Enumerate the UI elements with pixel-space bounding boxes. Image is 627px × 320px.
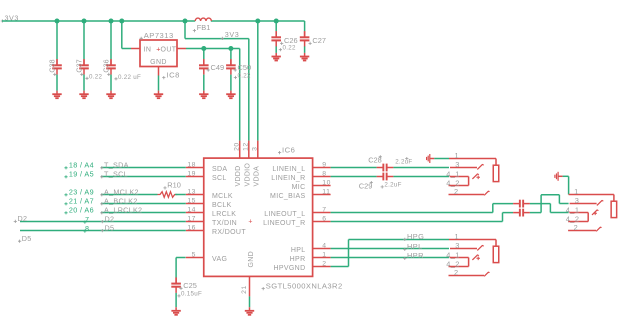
svg-text:T_SDA: T_SDA xyxy=(104,160,129,169)
svg-text:8: 8 xyxy=(85,224,89,233)
J3 headphone jack pin 2 contact xyxy=(484,272,489,276)
svg-text:VDDD: VDDD xyxy=(235,165,242,186)
capacitor C27 xyxy=(300,37,310,40)
svg-text:18: 18 xyxy=(187,161,196,168)
svg-text:D5: D5 xyxy=(105,223,115,232)
wire VDDIO down xyxy=(248,39,250,141)
svg-text:+: + xyxy=(248,218,252,225)
pin 17 stub (TX/DIN) xyxy=(186,221,204,223)
wire IC6 GND xyxy=(249,296,251,307)
svg-text:4_1: 4_1 xyxy=(446,169,460,178)
wire VDDD xyxy=(186,48,240,50)
svg-text:1: 1 xyxy=(455,151,460,160)
svg-text:HPL: HPL xyxy=(407,242,423,251)
svg-text:OUT: OUT xyxy=(161,46,177,53)
junction VDDA xyxy=(255,19,260,24)
wire LINEOUT_L xyxy=(331,212,493,214)
pin IN stub xyxy=(131,48,140,50)
capacitor C26 xyxy=(271,37,281,40)
wire IC8 GND xyxy=(158,76,160,91)
svg-text:19: 19 xyxy=(187,170,196,177)
svg-text:2: 2 xyxy=(454,187,459,196)
wire down to 4_1 xyxy=(549,204,551,213)
svg-text:SCL: SCL xyxy=(212,175,227,182)
svg-text:LINEIN_L: LINEIN_L xyxy=(272,166,305,173)
pin 2 stub (HPVGND) xyxy=(313,266,331,268)
wire to C26 xyxy=(275,21,277,31)
svg-text:C36: C36 xyxy=(102,59,111,72)
wire HPG xyxy=(349,239,450,241)
wire LINEIN_R xyxy=(331,176,377,178)
capacitor (line out R) xyxy=(520,209,523,217)
J3 headphone jack pin 4_1 xyxy=(450,257,469,259)
wire J2 sleeve down xyxy=(568,176,570,194)
pin 16 stub (RX/DOUT) xyxy=(186,230,204,232)
wire LINEOUT_R across xyxy=(503,212,514,214)
svg-text:C38: C38 xyxy=(48,59,57,72)
svg-text:GND: GND xyxy=(150,59,167,66)
wire LINEOUT_L up xyxy=(492,204,494,213)
wire down to pin3 xyxy=(558,195,560,204)
svg-text:1: 1 xyxy=(574,187,579,196)
svg-text:0.15uF: 0.15uF xyxy=(181,291,202,298)
svg-text:17: 17 xyxy=(187,215,196,222)
svg-text:LRCLK: LRCLK xyxy=(212,211,236,218)
J3 headphone jack pin 4_2 xyxy=(449,266,469,268)
pin GND stub xyxy=(158,67,160,76)
svg-text:10: 10 xyxy=(322,179,331,186)
J2 line-out jack pin 4_1 contact xyxy=(592,210,598,215)
svg-text:VAG: VAG xyxy=(212,256,227,263)
pin 13 stub (MCLK) xyxy=(186,194,204,196)
svg-text:MIC: MIC xyxy=(292,184,306,191)
svg-text:FB1: FB1 xyxy=(197,23,211,32)
wire 3V3 rail (after FB1) xyxy=(211,20,305,22)
wire VAG down xyxy=(175,258,177,278)
svg-text:MIC_BIAS: MIC_BIAS xyxy=(270,193,305,200)
svg-text:A_BCLK2: A_BCLK2 xyxy=(104,196,138,205)
op-amp IC6 SGTL5000 body xyxy=(204,158,313,276)
svg-text:3V3: 3V3 xyxy=(225,30,239,39)
svg-text:C27: C27 xyxy=(312,36,326,45)
ground below IC8 xyxy=(154,91,163,99)
svg-text:IC6: IC6 xyxy=(282,145,295,154)
wire LINEIN_L to jack xyxy=(393,167,449,169)
ground below C25 xyxy=(171,307,180,315)
svg-text:0.22: 0.22 xyxy=(89,73,103,80)
junction at C38 xyxy=(55,19,60,24)
ground below C27 xyxy=(300,53,309,61)
svg-text:3: 3 xyxy=(455,241,460,250)
wire A_BCLK2 xyxy=(101,203,186,205)
wire A_LRCLK2 xyxy=(101,212,186,214)
ground below C37 xyxy=(79,91,88,99)
svg-text:9: 9 xyxy=(322,161,326,168)
wire to C37 xyxy=(83,21,85,59)
capacitor C25 xyxy=(171,284,181,287)
svg-text:13: 13 xyxy=(187,188,196,195)
ground below C49 xyxy=(199,91,208,99)
J1 line-in jack pin 4_1 xyxy=(450,176,469,178)
svg-text:IC8: IC8 xyxy=(167,70,180,79)
svg-text:A_LRCLK2: A_LRCLK2 xyxy=(104,205,142,214)
wire VDDD down xyxy=(239,49,241,141)
pin 21 stub xyxy=(249,276,251,296)
pin 14 stub (LRCLK) xyxy=(186,212,204,214)
svg-text:19 / A5: 19 / A5 xyxy=(69,170,94,179)
J2 line-out jack pin 2 contact xyxy=(596,227,601,231)
wire LINEIN_R to jack xyxy=(393,176,449,178)
J3 headphone jack pin 4_1 contact xyxy=(472,255,478,260)
J1 line-in jack pin 4 link xyxy=(468,177,470,186)
svg-text:6: 6 xyxy=(322,215,326,222)
svg-text:11: 11 xyxy=(322,188,330,195)
capacitor C38 xyxy=(52,65,62,68)
pin 4 stub (HPL) xyxy=(313,248,331,250)
pin 11 stub (MIC_BIAS) xyxy=(313,194,331,196)
svg-text:12: 12 xyxy=(243,142,250,151)
wire VDDA down xyxy=(257,21,259,141)
capacitor C29 xyxy=(383,173,386,181)
svg-text:3: 3 xyxy=(252,147,259,151)
wire 3V3 rail xyxy=(2,20,195,22)
svg-text:A_MCLK2: A_MCLK2 xyxy=(104,187,139,196)
J2 line-out jack pin 4_2 xyxy=(568,221,588,223)
wire A_MCLK2 (after R10) xyxy=(175,194,186,196)
pin 7 stub (LINEOUT_L) xyxy=(313,212,331,214)
svg-text:1: 1 xyxy=(455,232,460,241)
J2 line-out jack pin 4 link xyxy=(587,213,589,222)
svg-text:SGTL5000XNLA3R2: SGTL5000XNLA3R2 xyxy=(266,281,343,290)
wire LINEOUT_L across xyxy=(493,203,513,205)
svg-text:BCLK: BCLK xyxy=(212,202,232,209)
pin 6 stub (LINEOUT_R) xyxy=(313,221,331,223)
svg-text:8: 8 xyxy=(322,170,326,177)
wire LINEIN_L xyxy=(331,167,377,169)
wire to C38 xyxy=(56,21,58,59)
svg-text:3: 3 xyxy=(455,160,460,169)
J1 line-in jack pin 4_1 contact xyxy=(472,174,478,179)
svg-text:5: 5 xyxy=(192,251,196,258)
J1 line-in jack body xyxy=(493,165,499,181)
svg-text:LINEOUT_R: LINEOUT_R xyxy=(263,220,305,227)
svg-text:20: 20 xyxy=(234,142,241,151)
svg-text:RX/DOUT: RX/DOUT xyxy=(212,229,246,236)
svg-text:GND: GND xyxy=(248,251,255,267)
ground below IC6 xyxy=(245,307,254,315)
J3 headphone jack pin 4 link xyxy=(468,258,470,267)
wire after cap R xyxy=(530,212,541,214)
wire up over xyxy=(540,195,542,213)
J2 line-out jack pin 1 xyxy=(569,194,614,196)
J1 line-in jack pin 4_2 xyxy=(449,185,469,187)
svg-text:21: 21 xyxy=(241,285,248,294)
J2 line-out jack pin 4_1 xyxy=(569,212,588,214)
svg-text:2: 2 xyxy=(454,268,459,277)
J2 line-out jack pin 2 xyxy=(568,230,596,232)
resistor R10 xyxy=(158,192,178,198)
J2 line-out jack pin 3 contact xyxy=(597,201,603,206)
wire LINEOUT_R up xyxy=(502,213,504,222)
J3 headphone jack body xyxy=(493,246,499,262)
wire HPR xyxy=(331,257,449,259)
svg-text:1: 1 xyxy=(322,251,326,258)
svg-text:2: 2 xyxy=(322,260,326,267)
J1 line-in jack sleeve ground xyxy=(427,154,435,163)
svg-text:HPG: HPG xyxy=(407,232,424,241)
J2 sleeve ground xyxy=(555,172,563,181)
pin 9 stub (LINEIN_L) xyxy=(313,167,331,169)
wire VAG xyxy=(176,257,185,259)
J1 line-in jack pin 3 xyxy=(450,167,477,169)
wire HPVGND xyxy=(331,266,349,268)
J3 headphone jack pin 1 xyxy=(449,239,496,241)
wire D5 xyxy=(20,230,186,232)
wire to C49 xyxy=(203,49,205,60)
svg-text:15: 15 xyxy=(187,197,196,204)
wire LINEOUT_R xyxy=(331,221,503,223)
junction at C37 xyxy=(82,19,87,24)
pin 3 stub (top) xyxy=(257,141,259,159)
wire T_SDA xyxy=(101,167,186,169)
pin 15 stub (BCLK) xyxy=(186,203,204,205)
J3 headphone jack pin 2 xyxy=(449,275,485,277)
capacitor C50 xyxy=(226,65,236,68)
svg-text:7: 7 xyxy=(322,206,326,213)
svg-text:HPR: HPR xyxy=(407,251,424,260)
pin 20 stub (top) xyxy=(239,141,241,159)
ground below C50 xyxy=(226,91,235,99)
capacitor C28 xyxy=(383,164,386,172)
capacitor C37 xyxy=(79,65,89,68)
wire HPL xyxy=(331,248,449,250)
svg-text:4_1: 4_1 xyxy=(446,250,460,259)
wire to C36 xyxy=(110,21,112,59)
svg-text:HPL: HPL xyxy=(291,247,306,254)
junction AP7313 feed xyxy=(119,19,124,24)
svg-text:18 / A4: 18 / A4 xyxy=(69,161,94,170)
svg-text:D2: D2 xyxy=(105,214,115,223)
svg-text:LINEOUT_L: LINEOUT_L xyxy=(264,211,305,218)
capacitor (line out L) xyxy=(520,200,523,208)
svg-text:R10: R10 xyxy=(167,181,181,190)
ferrite bead FB1 xyxy=(195,18,211,21)
svg-text:0.22 uF: 0.22 uF xyxy=(118,74,141,81)
wire HPVGND up xyxy=(348,240,350,267)
svg-text:LINEIN_R: LINEIN_R xyxy=(271,175,305,182)
junction at C26 xyxy=(274,19,279,24)
J1 line-in jack pin 1 xyxy=(449,158,496,160)
wire to J1 line-in jack pin 1 xyxy=(434,158,449,160)
svg-text:4: 4 xyxy=(322,242,326,249)
ground below C36 xyxy=(106,91,115,99)
svg-text:MCLK: MCLK xyxy=(212,193,233,200)
svg-text:VDDIO: VDDIO xyxy=(244,163,251,187)
svg-text:21 / A7: 21 / A7 xyxy=(69,197,94,206)
wire after cap L xyxy=(530,203,551,205)
regulator IC8 AP7313 body xyxy=(140,40,177,67)
svg-text:2.2uF: 2.2uF xyxy=(384,182,401,189)
J3 headphone jack pin 3 xyxy=(450,248,477,250)
svg-text:T_SCL: T_SCL xyxy=(104,169,128,178)
pin 5 stub (VAG) xyxy=(186,257,204,259)
wire T_SCL xyxy=(101,176,186,178)
J2 line-out jack body xyxy=(611,201,617,217)
svg-text:23 / A9: 23 / A9 xyxy=(69,188,94,197)
wire to C50 xyxy=(230,49,232,60)
pin 8 stub (LINEIN_R) xyxy=(313,176,331,178)
wire 3V3 branch down xyxy=(184,21,186,39)
svg-text:0.22: 0.22 xyxy=(238,73,252,80)
svg-text:C50: C50 xyxy=(238,63,252,72)
junction at C49 xyxy=(201,46,206,51)
J1 line-in jack pin 2 contact xyxy=(484,191,489,195)
pin 1 stub (HPR) xyxy=(313,257,331,259)
pin 19 stub (SCL) xyxy=(186,176,204,178)
svg-text:VDDA: VDDA xyxy=(253,166,260,187)
wire D2 xyxy=(20,221,186,223)
ground below C26 xyxy=(272,53,281,61)
svg-text:SDA: SDA xyxy=(212,166,227,173)
junction at C50 xyxy=(228,46,233,51)
svg-text:16: 16 xyxy=(187,224,196,231)
svg-text:14: 14 xyxy=(187,206,196,213)
capacitor C36 xyxy=(106,65,116,68)
svg-text:20 / A6: 20 / A6 xyxy=(69,206,94,215)
wire to C27 xyxy=(304,21,306,31)
svg-text:C37: C37 xyxy=(75,59,84,72)
svg-text:2: 2 xyxy=(574,223,579,232)
wire A_MCLK2 xyxy=(101,194,158,196)
wire J2 sleeve xyxy=(563,175,569,177)
svg-text:TX/DIN: TX/DIN xyxy=(212,220,237,227)
J2 line-out jack pin 3 xyxy=(570,203,597,205)
svg-text:4_1: 4_1 xyxy=(566,205,580,214)
wire to J2 pin 3 xyxy=(559,203,568,205)
capacitor C49 xyxy=(199,65,209,68)
J1 line-in jack pin 3 contact xyxy=(477,165,483,170)
pin 10 stub (MIC) xyxy=(313,185,331,187)
svg-text:C49: C49 xyxy=(211,63,225,72)
svg-text:HPR: HPR xyxy=(290,256,306,263)
svg-text:D5: D5 xyxy=(22,234,32,243)
pin 12 stub (top) xyxy=(248,141,250,159)
wire across top xyxy=(541,194,559,196)
wire 3V3 branch across xyxy=(185,38,249,40)
J1 line-in jack pin 2 xyxy=(449,194,485,196)
svg-text:0.22: 0.22 xyxy=(283,45,297,52)
svg-text:7: 7 xyxy=(85,215,89,224)
svg-text:IN: IN xyxy=(144,46,152,53)
J3 headphone jack pin 3 contact xyxy=(477,246,483,251)
wire down to IC8 IN xyxy=(121,21,123,49)
wire to J2 pin 4_1 xyxy=(550,212,568,214)
junction 3V3 branch xyxy=(183,19,188,24)
svg-text:D2: D2 xyxy=(18,214,28,223)
svg-text:HPVGND: HPVGND xyxy=(273,265,305,272)
svg-text:3: 3 xyxy=(575,196,580,205)
pin OUT stub xyxy=(177,48,186,50)
svg-text:2.2uF: 2.2uF xyxy=(395,158,412,165)
pin 18 stub (SDA) xyxy=(186,167,204,169)
ground below C38 xyxy=(52,91,61,99)
junction at C36 xyxy=(109,19,114,24)
svg-text:C25: C25 xyxy=(183,281,197,290)
svg-text:AP7313: AP7313 xyxy=(144,31,174,40)
